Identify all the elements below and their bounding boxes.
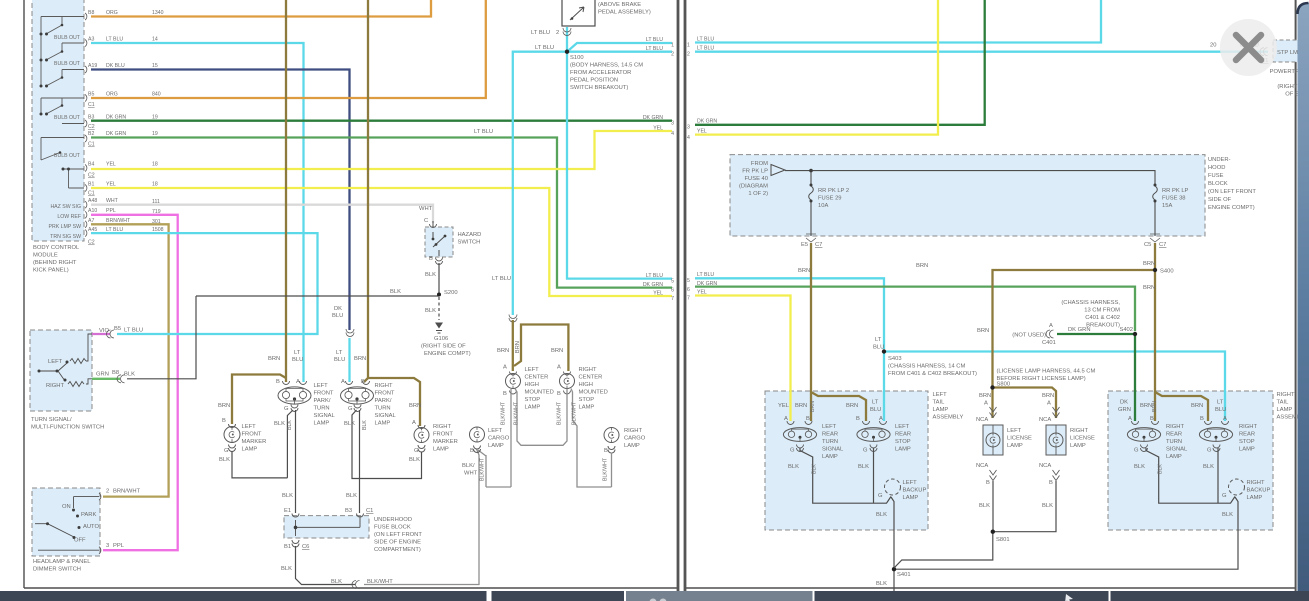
svg-text:LICENSE: LICENSE: [1007, 436, 1032, 442]
svg-text:LAMP: LAMP: [1007, 443, 1023, 449]
svg-text:S800: S800: [997, 382, 1011, 388]
svg-text:C2: C2: [88, 240, 95, 246]
svg-text:LAMP: LAMP: [433, 447, 449, 453]
svg-text:SWITCH: SWITCH: [458, 240, 481, 246]
svg-text:A19: A19: [88, 63, 97, 69]
svg-text:BRN: BRN: [497, 348, 509, 354]
svg-text:RIGHT: RIGHT: [579, 367, 597, 373]
svg-text:A: A: [341, 379, 345, 385]
svg-text:15A: 15A: [1162, 203, 1172, 209]
svg-text:LEFT: LEFT: [48, 359, 63, 365]
svg-text:FROM ACCELERATOR: FROM ACCELERATOR: [570, 70, 631, 76]
svg-text:BODY CONTROL: BODY CONTROL: [33, 245, 80, 251]
svg-text:(CHASSIS HARNESS, 14 CM: (CHASSIS HARNESS, 14 CM: [888, 364, 965, 370]
svg-text:FUSE 40: FUSE 40: [744, 176, 768, 182]
svg-text:2: 2: [671, 52, 674, 58]
svg-text:S403: S403: [888, 356, 902, 362]
svg-text:BLU: BLU: [334, 357, 345, 363]
svg-text:BLK: BLK: [281, 566, 292, 572]
svg-text:TURN: TURN: [1166, 439, 1182, 445]
svg-text:PARK: PARK: [81, 512, 96, 518]
svg-text:C1: C1: [88, 102, 95, 108]
svg-text:LAMP: LAMP: [1166, 454, 1182, 460]
svg-text:BRN: BRN: [810, 401, 816, 412]
svg-text:BRN: BRN: [218, 403, 230, 409]
svg-text:PRK LMP SW: PRK LMP SW: [49, 224, 82, 230]
svg-text:LOW REF: LOW REF: [57, 214, 81, 220]
svg-text:BREAKOUT): BREAKOUT): [1086, 323, 1120, 329]
svg-text:C5: C5: [1144, 242, 1151, 248]
svg-text:LT: LT: [875, 337, 882, 343]
svg-text:LT BLU: LT BLU: [531, 30, 550, 36]
svg-text:BLK: BLK: [344, 421, 355, 427]
svg-text:LT BLU: LT BLU: [646, 46, 663, 52]
svg-text:LAMP: LAMP: [579, 405, 595, 411]
svg-text:YEL: YEL: [106, 182, 116, 188]
svg-text:RIGHT: RIGHT: [1070, 428, 1088, 434]
svg-text:1: 1: [671, 43, 674, 49]
svg-text:BLK: BLK: [390, 289, 401, 295]
svg-text:NCA: NCA: [976, 463, 988, 469]
svg-text:BLK: BLK: [1203, 464, 1214, 470]
svg-text:LAMP: LAMP: [488, 443, 504, 449]
svg-text:S200: S200: [444, 290, 458, 296]
svg-text:BLK: BLK: [219, 457, 230, 463]
svg-text:HAZARD: HAZARD: [458, 232, 482, 238]
svg-text:YEL: YEL: [653, 291, 663, 297]
svg-text:CARGO: CARGO: [488, 436, 510, 442]
svg-text:LT BLU: LT BLU: [106, 37, 123, 43]
svg-text:LT: LT: [872, 400, 879, 406]
svg-text:REAR: REAR: [822, 432, 838, 438]
svg-text:BRN: BRN: [268, 356, 280, 362]
svg-text:DK: DK: [334, 306, 342, 312]
svg-text:ASSEMBLY: ASSEMBLY: [933, 415, 964, 421]
svg-text:YEL: YEL: [106, 162, 116, 168]
svg-text:A: A: [1047, 401, 1051, 407]
svg-text:B5: B5: [114, 326, 121, 332]
svg-text:BLK/WHT: BLK/WHT: [557, 401, 563, 425]
svg-text:TURN SIGNAL/: TURN SIGNAL/: [31, 417, 72, 423]
svg-text:BLK/WHT: BLK/WHT: [572, 401, 578, 425]
svg-text:LAMP: LAMP: [375, 421, 391, 427]
svg-text:(BEHIND RIGHT: (BEHIND RIGHT: [33, 260, 77, 266]
svg-text:B2: B2: [88, 131, 94, 137]
svg-text:2: 2: [556, 30, 559, 36]
svg-text:BLK: BLK: [1134, 464, 1145, 470]
svg-text:GRN: GRN: [96, 372, 109, 378]
svg-text:G: G: [1134, 448, 1139, 454]
svg-text:S402: S402: [1119, 327, 1133, 333]
svg-text:B: B: [856, 416, 860, 422]
svg-text:C401 & C402: C401 & C402: [1085, 315, 1120, 321]
svg-text:LICENSE: LICENSE: [1070, 436, 1095, 442]
svg-text:TURN: TURN: [822, 439, 838, 445]
svg-text:BLK/WHT: BLK/WHT: [514, 401, 520, 425]
svg-text:(NOT USED): (NOT USED): [1012, 333, 1046, 339]
svg-text:LT: LT: [294, 350, 301, 356]
svg-text:13 CM FROM: 13 CM FROM: [1084, 308, 1120, 314]
svg-text:ON: ON: [62, 504, 71, 510]
svg-text:HEADLAMP & PANEL: HEADLAMP & PANEL: [33, 559, 91, 565]
svg-text:B: B: [222, 418, 226, 424]
svg-text:C401: C401: [1042, 340, 1056, 346]
svg-text:BLK/WHT: BLK/WHT: [501, 401, 507, 425]
svg-text:G: G: [414, 448, 419, 454]
svg-text:LEFT: LEFT: [903, 480, 918, 486]
svg-text:BLK: BLK: [812, 464, 818, 474]
svg-text:BRN: BRN: [515, 341, 521, 353]
svg-text:A7: A7: [88, 218, 94, 224]
svg-text:14: 14: [152, 37, 158, 43]
svg-text:GRN: GRN: [1118, 407, 1131, 413]
svg-text:CENTER: CENTER: [525, 375, 549, 381]
svg-text:BLU: BLU: [873, 345, 884, 351]
svg-text:RIGHT: RIGHT: [624, 428, 642, 434]
svg-text:NCA: NCA: [1039, 417, 1051, 423]
svg-text:B: B: [806, 416, 810, 422]
svg-text:COMPARTMENT): COMPARTMENT): [374, 547, 421, 553]
svg-text:BRN/WHT: BRN/WHT: [113, 489, 141, 495]
svg-text:BRN: BRN: [551, 348, 563, 354]
svg-text:FRONT: FRONT: [375, 391, 395, 397]
svg-text:C7: C7: [1159, 242, 1166, 248]
svg-text:BULB OUT: BULB OUT: [54, 153, 81, 159]
svg-text:G: G: [348, 406, 353, 412]
svg-text:18: 18: [152, 182, 158, 188]
svg-text:(ABOVE BRAKE: (ABOVE BRAKE: [598, 2, 641, 8]
svg-text:C2: C2: [88, 173, 95, 179]
svg-text:G: G: [1207, 448, 1212, 454]
svg-text:TURN: TURN: [375, 406, 391, 412]
svg-text:E1: E1: [284, 508, 291, 514]
svg-text:5: 5: [671, 279, 674, 285]
svg-text:HOOD: HOOD: [1208, 165, 1225, 171]
svg-text:LT BLU: LT BLU: [492, 276, 511, 282]
svg-text:STP LM: STP LM: [1277, 50, 1298, 56]
svg-text:840: 840: [152, 92, 161, 98]
svg-text:LAMP: LAMP: [1277, 407, 1293, 413]
svg-text:G: G: [878, 493, 883, 499]
svg-text:3: 3: [671, 121, 674, 127]
svg-text:B: B: [1049, 480, 1053, 486]
svg-text:SWITCH BREAKOUT): SWITCH BREAKOUT): [570, 85, 628, 91]
svg-text:LEFT: LEFT: [525, 367, 540, 373]
svg-text:BLK: BLK: [282, 493, 293, 499]
svg-text:DK BLU: DK BLU: [106, 63, 125, 69]
svg-text:C1: C1: [88, 191, 95, 197]
svg-text:B: B: [429, 256, 433, 262]
svg-text:B: B: [986, 480, 990, 486]
svg-text:C2: C2: [88, 124, 95, 130]
svg-text:LAMP: LAMP: [1239, 447, 1255, 453]
svg-text:BLK/WHT: BLK/WHT: [603, 457, 609, 481]
svg-text:LEFT: LEFT: [933, 392, 948, 398]
svg-text:CENTER: CENTER: [579, 375, 603, 381]
svg-text:LAMP: LAMP: [314, 421, 330, 427]
svg-text:NCA: NCA: [1039, 463, 1051, 469]
svg-text:BRN: BRN: [979, 393, 991, 399]
svg-text:20: 20: [1210, 43, 1216, 49]
svg-text:B1: B1: [284, 544, 291, 550]
svg-text:LT BLU: LT BLU: [697, 46, 714, 52]
svg-text:MOUNTED: MOUNTED: [579, 390, 608, 396]
svg-text:RIGHT: RIGHT: [46, 383, 64, 389]
svg-text:BLK: BLK: [979, 503, 990, 509]
svg-text:LAMP: LAMP: [1247, 495, 1263, 501]
svg-text:REAR: REAR: [1166, 432, 1182, 438]
svg-text:(BODY HARNESS, 14.5 CM: (BODY HARNESS, 14.5 CM: [570, 63, 643, 69]
svg-text:NCA: NCA: [976, 417, 988, 423]
svg-text:B5: B5: [88, 92, 94, 98]
svg-text:A: A: [984, 401, 988, 407]
svg-text:BRN: BRN: [354, 356, 366, 362]
svg-text:SIGNAL: SIGNAL: [314, 413, 336, 419]
svg-text:3: 3: [106, 543, 109, 549]
svg-text:DK GRN: DK GRN: [643, 115, 663, 121]
svg-text:RIGHT: RIGHT: [1277, 392, 1295, 398]
svg-text:BACKUP: BACKUP: [903, 488, 927, 494]
svg-text:UNDERHOOD: UNDERHOOD: [374, 517, 412, 523]
svg-text:BLK: BLK: [876, 512, 887, 518]
svg-text:HAZ SW SIG: HAZ SW SIG: [50, 204, 81, 210]
svg-text:BLK/: BLK/: [462, 463, 475, 469]
svg-text:BRN: BRN: [409, 403, 421, 409]
svg-text:2: 2: [687, 52, 690, 58]
svg-text:ASSEMB: ASSEMB: [1277, 415, 1301, 421]
svg-text:WHT: WHT: [106, 198, 119, 204]
svg-text:MODULE: MODULE: [33, 253, 58, 259]
svg-text:G: G: [863, 448, 868, 454]
svg-text:LEFT: LEFT: [488, 428, 503, 434]
svg-text:S801: S801: [996, 537, 1010, 543]
svg-text:ORG: ORG: [106, 10, 118, 16]
svg-text:C7: C7: [815, 242, 822, 248]
svg-text:LAMP: LAMP: [1070, 443, 1086, 449]
svg-text:G: G: [1222, 493, 1227, 499]
svg-text:FUSE BLOCK: FUSE BLOCK: [374, 525, 411, 531]
svg-text:BRN: BRN: [1152, 401, 1158, 412]
svg-text:BLK: BLK: [425, 308, 436, 314]
svg-text:(RIGHT SIDE OF: (RIGHT SIDE OF: [421, 344, 466, 350]
svg-text:DK GRN: DK GRN: [643, 282, 663, 288]
svg-text:RR PK LP: RR PK LP: [1162, 188, 1189, 194]
svg-text:G: G: [790, 448, 795, 454]
svg-text:TURN: TURN: [314, 406, 330, 412]
svg-text:RIGHT: RIGHT: [433, 424, 451, 430]
svg-text:BLK: BLK: [346, 493, 357, 499]
svg-text:BLK: BLK: [1222, 512, 1233, 518]
svg-text:CARGO: CARGO: [624, 436, 646, 442]
svg-text:DK GRN: DK GRN: [106, 131, 126, 137]
svg-text:A: A: [557, 365, 561, 371]
svg-text:TAIL: TAIL: [1277, 400, 1290, 406]
svg-text:PPL: PPL: [106, 208, 116, 214]
svg-text:FROM: FROM: [751, 161, 768, 167]
svg-text:MOUNTED: MOUNTED: [525, 390, 554, 396]
svg-text:FUSE 29: FUSE 29: [818, 196, 842, 202]
svg-text:A48: A48: [88, 198, 97, 204]
svg-text:HIGH: HIGH: [525, 382, 540, 388]
svg-text:C1: C1: [366, 508, 373, 514]
svg-text:LEFT: LEFT: [1007, 428, 1022, 434]
svg-text:DK GRN: DK GRN: [697, 281, 717, 287]
svg-text:B8: B8: [88, 10, 94, 16]
svg-text:B3: B3: [345, 508, 352, 514]
svg-text:MARKER: MARKER: [433, 439, 458, 445]
svg-text:DIMMER SWITCH: DIMMER SWITCH: [33, 567, 81, 573]
svg-text:TAIL: TAIL: [933, 400, 946, 406]
svg-text:(LICENSE LAMP HARNESS, 44.5 CM: (LICENSE LAMP HARNESS, 44.5 CM: [997, 369, 1096, 375]
svg-text:LAMP: LAMP: [624, 443, 640, 449]
svg-text:BRN: BRN: [1191, 403, 1203, 409]
svg-text:A: A: [1049, 323, 1053, 329]
svg-text:LT BLU: LT BLU: [124, 328, 143, 334]
svg-text:BLK: BLK: [362, 420, 368, 430]
svg-text:BLK: BLK: [876, 581, 887, 587]
svg-text:BRN: BRN: [1042, 393, 1054, 399]
svg-text:BLK: BLK: [425, 272, 436, 278]
svg-text:LEFT: LEFT: [822, 424, 837, 430]
svg-text:HIGH: HIGH: [579, 382, 594, 388]
svg-text:(CHASSIS HARNESS,: (CHASSIS HARNESS,: [1061, 300, 1120, 306]
svg-text:BLU: BLU: [1215, 407, 1226, 413]
svg-text:LT BLU: LT BLU: [646, 273, 663, 279]
svg-text:BLOCK: BLOCK: [1208, 181, 1228, 187]
svg-text:B: B: [1200, 416, 1204, 422]
svg-text:A: A: [879, 416, 883, 422]
svg-text:LAMP: LAMP: [903, 495, 919, 501]
svg-text:PEDAL POSITION: PEDAL POSITION: [570, 78, 618, 84]
svg-text:STOP: STOP: [895, 439, 911, 445]
svg-text:SIGNAL: SIGNAL: [375, 413, 397, 419]
svg-text:BRN: BRN: [1143, 261, 1155, 267]
svg-text:BRN: BRN: [798, 268, 810, 274]
svg-text:BLU: BLU: [292, 357, 303, 363]
svg-text:A: A: [412, 420, 416, 426]
svg-text:YEL: YEL: [653, 126, 663, 132]
svg-text:A: A: [1128, 416, 1132, 422]
svg-text:4: 4: [687, 135, 690, 141]
svg-text:6: 6: [671, 288, 674, 294]
svg-text:AUTO: AUTO: [83, 524, 99, 530]
svg-text:LT BLU: LT BLU: [474, 129, 493, 135]
svg-text:B: B: [1150, 416, 1154, 422]
svg-text:BRN: BRN: [1143, 285, 1155, 291]
svg-text:S100: S100: [570, 55, 584, 61]
svg-text:BRN: BRN: [916, 263, 928, 269]
svg-text:C1: C1: [88, 142, 95, 148]
svg-text:BLK: BLK: [124, 372, 135, 378]
svg-text:BLK: BLK: [1158, 464, 1164, 474]
svg-text:A: A: [296, 379, 300, 385]
svg-text:STOP: STOP: [525, 397, 541, 403]
svg-text:B: B: [557, 391, 561, 397]
svg-text:S400: S400: [1160, 269, 1174, 275]
svg-text:UNDER-: UNDER-: [1208, 157, 1231, 163]
svg-text:LAMP: LAMP: [242, 447, 258, 453]
svg-text:SIDE OF ENGINE: SIDE OF ENGINE: [374, 540, 421, 546]
svg-text:LAMP: LAMP: [895, 447, 911, 453]
svg-text:B: B: [503, 391, 507, 397]
svg-text:BLU: BLU: [870, 407, 881, 413]
svg-text:19: 19: [152, 131, 158, 137]
svg-text:B: B: [604, 448, 608, 454]
svg-text:ENGINE COMPT): ENGINE COMPT): [424, 351, 471, 357]
svg-text:B4: B4: [88, 162, 94, 168]
svg-text:WHT: WHT: [419, 206, 433, 212]
svg-text:LT BLU: LT BLU: [697, 272, 714, 278]
svg-text:1340: 1340: [152, 10, 164, 16]
svg-text:DK GRN: DK GRN: [697, 119, 717, 125]
svg-text:BLK: BLK: [409, 457, 420, 463]
svg-text:BRN: BRN: [1140, 403, 1152, 409]
svg-text:WHT: WHT: [464, 471, 478, 477]
svg-text:SIGNAL: SIGNAL: [822, 447, 844, 453]
svg-text:MARKER: MARKER: [242, 439, 267, 445]
svg-text:LT: LT: [336, 350, 343, 356]
svg-text:PARK/: PARK/: [375, 398, 392, 404]
svg-text:LT: LT: [1217, 400, 1224, 406]
svg-text:E5: E5: [801, 242, 808, 248]
svg-text:2: 2: [106, 489, 109, 495]
svg-text:G: G: [224, 448, 229, 454]
svg-text:(DIAGRAM: (DIAGRAM: [739, 184, 768, 190]
svg-text:BLK: BLK: [287, 420, 293, 430]
svg-text:10A: 10A: [818, 203, 828, 209]
svg-text:LEFT: LEFT: [314, 383, 329, 389]
svg-text:BRN: BRN: [977, 328, 989, 334]
svg-text:6: 6: [687, 287, 690, 293]
svg-text:SIGNAL: SIGNAL: [1166, 447, 1188, 453]
svg-text:S401: S401: [897, 572, 911, 578]
svg-text:LAMP: LAMP: [933, 407, 949, 413]
svg-text:PARK/: PARK/: [314, 398, 331, 404]
svg-text:A: A: [1223, 416, 1227, 422]
svg-text:TRN SIG SW: TRN SIG SW: [50, 234, 81, 240]
svg-text:DK: DK: [1120, 400, 1128, 406]
svg-text:18: 18: [152, 162, 158, 168]
svg-text:A: A: [503, 365, 507, 371]
svg-text:PEDAL ASSEMBLY): PEDAL ASSEMBLY): [598, 10, 651, 16]
svg-text:ENGINE COMPT): ENGINE COMPT): [1208, 205, 1255, 211]
svg-text:3: 3: [687, 125, 690, 131]
svg-text:FR PK LP: FR PK LP: [742, 169, 768, 175]
svg-text:LEFT: LEFT: [895, 424, 910, 430]
svg-text:BULB OUT: BULB OUT: [54, 115, 81, 121]
svg-text:A10: A10: [88, 208, 97, 214]
svg-text:BRN: BRN: [795, 403, 807, 409]
svg-text:RIGHT: RIGHT: [1247, 480, 1265, 486]
svg-text:BRN: BRN: [846, 403, 858, 409]
svg-text:BRN/WHT: BRN/WHT: [106, 218, 131, 224]
svg-text:B8: B8: [112, 370, 119, 376]
svg-text:BLK: BLK: [274, 421, 285, 427]
svg-text:A: A: [784, 416, 788, 422]
svg-text:C: C: [424, 218, 428, 224]
svg-text:LAMP: LAMP: [525, 405, 541, 411]
svg-text:FROM C401 & C402 BREAKOUT): FROM C401 & C402 BREAKOUT): [888, 371, 977, 377]
svg-text:G: G: [284, 406, 289, 412]
svg-text:4: 4: [671, 131, 674, 137]
svg-text:REAR: REAR: [895, 432, 911, 438]
svg-text:BLU: BLU: [332, 313, 343, 319]
svg-text:G106: G106: [434, 336, 448, 342]
svg-text:1 OF 2): 1 OF 2): [748, 191, 768, 197]
svg-text:LT BLU: LT BLU: [697, 37, 714, 43]
svg-text:STOP: STOP: [579, 397, 595, 403]
svg-text:KICK PANEL): KICK PANEL): [33, 268, 69, 274]
